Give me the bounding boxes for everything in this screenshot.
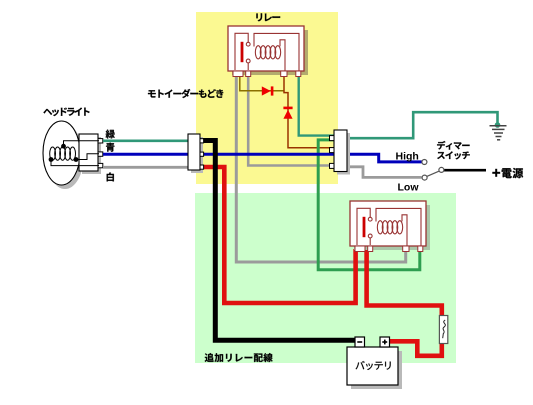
label blue wire	[106, 143, 114, 152]
label white wire	[107, 172, 114, 181]
relay U2	[350, 201, 430, 252]
label +power plus sign	[492, 169, 500, 177]
yellow relay zone	[196, 12, 338, 184]
label dimmer line2	[437, 151, 470, 159]
battery plus terminal	[380, 337, 390, 347]
label dimmer line1	[437, 141, 469, 150]
diode D1	[262, 86, 274, 95]
dimmer switch lever	[427, 171, 440, 177]
switch pivot contact	[439, 167, 444, 172]
diode D2	[283, 107, 292, 119]
ground symbol	[490, 126, 507, 140]
headlight connector block	[79, 134, 103, 174]
svg-text:High: High	[396, 151, 419, 163]
label headlight	[43, 107, 89, 116]
label added relay wiring	[205, 353, 273, 362]
wire: relay U1 pin1 to relay U2 pin3 (gray)	[236, 76, 405, 262]
ground node dot	[495, 122, 501, 128]
wire: red feed J1 pin3 to relay U2 pin1	[202, 167, 356, 303]
filament junction dots	[49, 144, 79, 162]
relay U1	[228, 26, 308, 77]
fuse F1	[439, 316, 447, 344]
svg-text:Low: Low	[398, 181, 420, 193]
label relay	[256, 13, 280, 21]
headlight lamp body	[43, 121, 84, 189]
green added-wiring zone	[195, 193, 456, 363]
wire: teal relay U1 pin4 to J2 pin1	[299, 76, 335, 136]
wire: black to +power	[444, 169, 486, 172]
wire: brown lead relay U1 pin3 through diode D2 to J2 pin2	[284, 76, 335, 148]
wire: bright green J2 pin1 to relay U2 pin4	[318, 140, 420, 270]
wire: black ground lead J1 pin1 to battery minus	[202, 141, 356, 341]
connector J1 (left)	[188, 134, 204, 173]
wire: white headlight lead (gray)	[103, 166, 189, 169]
label battery	[356, 361, 391, 370]
wire: relay U1 pin2 to connector J2 pin3 (gray)	[248, 76, 330, 166]
headlight filament coil	[50, 141, 99, 166]
battery minus terminal	[355, 337, 365, 347]
wire: J2 pin3 to Low contact (gray)	[346, 167, 422, 178]
wire: green headlight lead	[103, 140, 189, 143]
label green wire	[106, 130, 115, 139]
wire: olive lead relay U1 pin1 to diode D1	[240, 76, 284, 91]
label +power	[502, 168, 523, 178]
wire: teal J2 to ground	[346, 112, 498, 138]
wire: red relay U2 pin2 to fuse F1	[367, 249, 442, 316]
High contact	[422, 160, 427, 165]
Low contact	[422, 175, 427, 180]
label moto-eater-modoki	[148, 89, 223, 98]
battery	[347, 337, 402, 389]
wire: red fuse F1 to battery plus	[390, 341, 442, 356]
wire: blue high-beam lead	[103, 154, 422, 162]
connector J2 (right)	[330, 130, 351, 175]
